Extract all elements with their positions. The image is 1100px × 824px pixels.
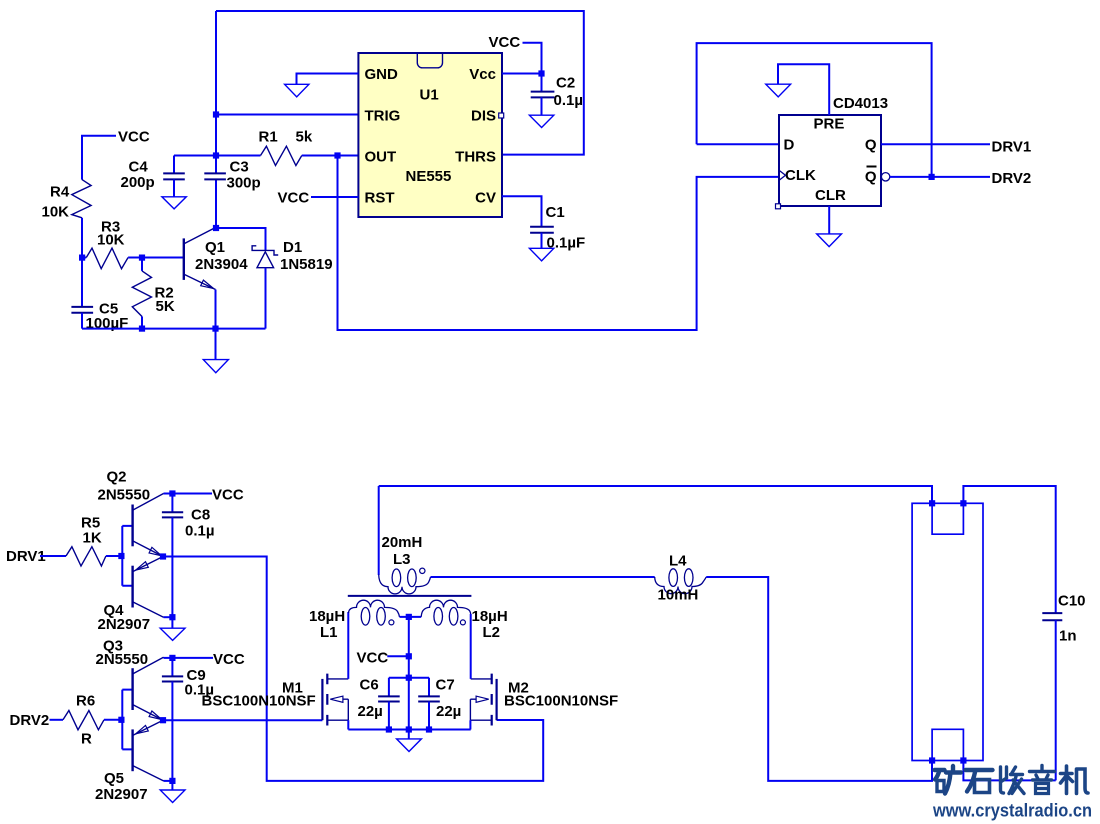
IC U1 NE555 body	[358, 53, 502, 217]
transistor M1 BSC100N10NSF nmos	[322, 674, 348, 726]
svg-text:L2: L2	[483, 624, 501, 641]
wire buffer2 output to M1 gate	[163, 719, 322, 721]
svg-text:Q: Q	[865, 137, 877, 154]
transistor M2 BSC100N10NSF nmos	[470, 674, 496, 726]
lamp filament bottom	[932, 729, 963, 760]
wire DRV1 to R5	[40, 555, 66, 557]
power label VCC (Q2)	[172, 487, 243, 504]
ground (C4)	[162, 197, 186, 209]
svg-text:C6: C6	[360, 677, 379, 694]
capacitor C6	[378, 678, 400, 730]
node Qbar/loop	[929, 174, 935, 180]
wire GND pin	[297, 74, 359, 85]
label R3 10K	[97, 219, 125, 249]
capacitor C7	[418, 678, 440, 730]
label C7 22µ	[436, 677, 462, 721]
node junction R4/R3/C5	[79, 255, 85, 261]
transformer core	[348, 595, 472, 597]
svg-text:VCC: VCC	[212, 487, 244, 504]
svg-text:OUT: OUT	[365, 149, 397, 166]
svg-text:VCC: VCC	[213, 651, 245, 668]
label L4 10mH	[658, 553, 699, 604]
capacitor C1	[530, 227, 554, 249]
wire base bracket Q3/Q5	[122, 690, 132, 750]
wire top feedback TRIG/THRS	[216, 11, 584, 155]
svg-text:10K: 10K	[42, 204, 70, 221]
svg-text:20mH: 20mH	[382, 534, 423, 551]
svg-text:C8: C8	[191, 507, 210, 524]
label M1 BSC100N10NSF	[202, 680, 316, 710]
svg-text:BSC100N10NSF: BSC100N10NSF	[202, 693, 316, 710]
pin CLK edge triangle	[779, 170, 786, 180]
svg-text:RST: RST	[365, 190, 395, 207]
capacitor C9	[162, 658, 183, 781]
wire cap top rail	[389, 677, 429, 679]
wire L1 to centre tap	[400, 616, 422, 618]
svg-text:DRV1: DRV1	[6, 548, 46, 565]
node R2 bottom	[139, 326, 145, 332]
node VCC tap	[406, 653, 412, 659]
svg-text:www.crystalradio.cn: www.crystalradio.cn	[932, 801, 1092, 821]
node Q1 collector	[213, 225, 219, 231]
node centre rail	[406, 726, 412, 732]
node lamp pin3	[929, 757, 935, 763]
svg-text:CLK: CLK	[785, 167, 816, 184]
svg-text:C7: C7	[436, 677, 455, 694]
svg-text:Vcc: Vcc	[469, 66, 496, 83]
label C4 200p	[121, 159, 155, 192]
wire L3 left lead	[378, 486, 380, 575]
svg-text:18µH: 18µH	[309, 608, 345, 625]
label C10 1n	[1058, 593, 1086, 645]
wire DRV2 to R6	[50, 719, 64, 721]
svg-text:Q5: Q5	[104, 770, 124, 787]
label Q3 2N5550	[96, 638, 149, 669]
svg-text:R: R	[81, 731, 92, 748]
wire M2 drain to L2	[470, 614, 472, 679]
wire PRE to ground	[778, 64, 829, 115]
label C8 0.1µ	[185, 507, 215, 540]
label R2 5K	[155, 285, 175, 316]
transistor Q5 2N2907	[133, 720, 173, 781]
node base junction R3/R2	[139, 255, 145, 261]
svg-text:D1: D1	[283, 239, 302, 256]
net label DRV2	[992, 170, 1032, 187]
svg-text:D: D	[784, 137, 795, 154]
wire CV	[502, 196, 542, 226]
svg-text:1K: 1K	[83, 530, 102, 547]
wire Q to DRV1	[881, 143, 990, 145]
wire L3 to L4	[431, 576, 655, 578]
IC U2 CD4013 body	[779, 115, 881, 206]
node transformer centre tap	[406, 614, 412, 620]
capacitor C8	[162, 494, 183, 618]
wire TRIG	[216, 114, 358, 116]
pin Qbar bubble	[881, 173, 889, 181]
svg-text:5k: 5k	[296, 129, 313, 146]
svg-text:2N5550: 2N5550	[96, 651, 149, 668]
label Q2 2N5550	[98, 469, 151, 504]
node cap rail top	[406, 675, 412, 681]
inductor L1 18µH	[349, 600, 400, 625]
node Q5 collector gnd	[169, 778, 175, 784]
svg-text:22µ: 22µ	[358, 703, 383, 720]
label L2 18µH	[472, 608, 508, 641]
lamp filament top	[932, 503, 963, 534]
node OUT	[334, 152, 340, 158]
label Q5 2N2907	[95, 770, 148, 803]
svg-text:200p: 200p	[121, 174, 155, 191]
ground (PRE)	[766, 84, 791, 97]
node OUT row / C3 top	[213, 152, 219, 158]
ground (Q4/C8)	[160, 617, 185, 640]
svg-text:1N5819: 1N5819	[280, 256, 333, 273]
svg-text:Q1: Q1	[205, 239, 225, 256]
node Vcc/C2	[538, 70, 544, 76]
inductor L4 10mH	[655, 569, 707, 594]
node lamp pin1	[929, 500, 935, 506]
node lamp pin4	[960, 757, 966, 763]
power label VCC (RST)	[278, 190, 310, 207]
wire Qbar to DRV2	[890, 176, 990, 178]
resistor R1	[261, 146, 359, 165]
svg-text:0.1µ: 0.1µ	[554, 92, 584, 109]
ground (Q5/C9)	[160, 781, 185, 803]
svg-text:CV: CV	[475, 190, 496, 207]
label C6 22µ	[358, 677, 383, 721]
label C1 0.1µF	[546, 204, 586, 252]
wire lamp pin2 to C10	[963, 486, 1055, 613]
U2 pin label Qbar	[865, 167, 877, 186]
wire L4 to lamp bottom	[706, 577, 932, 781]
wire source rail	[348, 729, 470, 731]
wire R4 to node	[81, 218, 83, 258]
resistor R3	[82, 248, 139, 269]
node TRIG	[213, 111, 219, 117]
label D1 1N5819	[280, 239, 333, 273]
ground (CLR)	[817, 234, 842, 247]
svg-text:300p: 300p	[227, 175, 261, 192]
wire Vcc pin to VCC label	[502, 43, 542, 74]
svg-text:VCC: VCC	[357, 650, 389, 667]
svg-text:C10: C10	[1058, 593, 1086, 610]
svg-text:BSC100N10NSF: BSC100N10NSF	[504, 693, 618, 710]
wire OUT row left	[216, 155, 261, 157]
svg-text:2N2907: 2N2907	[95, 786, 148, 803]
svg-text:DRV2: DRV2	[992, 170, 1032, 187]
node Q2/Q4 emitter output	[160, 553, 166, 559]
transistor Q2 2N5550	[133, 494, 173, 557]
svg-text:R6: R6	[76, 693, 95, 710]
label C2 0.1µ	[554, 75, 584, 110]
node Q3/Q5 emitter output	[160, 717, 166, 723]
svg-text:0.1µ: 0.1µ	[185, 523, 215, 540]
power label VCC (centre tap)	[357, 650, 409, 667]
transistor Q3 2N5550	[133, 657, 173, 720]
svg-text:TRIG: TRIG	[365, 108, 401, 125]
label U1	[420, 87, 439, 104]
node Q3 collector VCC	[169, 655, 175, 661]
ground (below Q1)	[203, 329, 228, 373]
wire OUT to CLK (long)	[338, 156, 780, 331]
node DRV1 base	[118, 553, 124, 559]
wire bottom rail (C5/R2/Q1/D1)	[82, 328, 266, 330]
resistor R5	[66, 547, 122, 566]
svg-text:DRV2: DRV2	[10, 712, 50, 729]
label R1 5k	[259, 129, 313, 146]
watermark logo kuangshi shouyinji	[935, 766, 1089, 794]
inductor L3 20mH	[379, 568, 431, 594]
wire lamp top feed	[379, 486, 932, 503]
svg-text:GND: GND	[365, 66, 399, 83]
node Q1 emitter bottom	[212, 326, 218, 332]
ground (U1 GND)	[285, 84, 309, 97]
capacitor C3	[204, 173, 226, 179]
wire D input	[697, 143, 779, 145]
wire lamp pin4 to C10 bottom	[963, 761, 1055, 781]
wire M1 source to rail	[347, 720, 349, 729]
svg-text:Q2: Q2	[107, 469, 127, 486]
ground (converter rail)	[397, 730, 422, 752]
resistor R6	[63, 711, 122, 730]
label CD4013	[833, 95, 888, 112]
svg-text:2N3904: 2N3904	[195, 256, 248, 273]
svg-text:CD4013: CD4013	[833, 95, 888, 112]
svg-text:DIS: DIS	[471, 108, 496, 125]
svg-text:R4: R4	[50, 183, 70, 200]
wire M1 drain to L1	[347, 612, 349, 679]
svg-text:10mH: 10mH	[658, 587, 699, 604]
resistor R2	[132, 258, 151, 329]
label NE555	[406, 168, 452, 185]
svg-text:L4: L4	[669, 553, 687, 570]
wire base to Q1	[142, 257, 183, 259]
node C6 rail	[386, 726, 392, 732]
svg-text:10K: 10K	[97, 232, 125, 249]
power label VCC (top left)	[118, 129, 150, 146]
svg-text:NE555: NE555	[406, 168, 452, 185]
watermark url www.crystalradio.cn	[932, 801, 1092, 821]
wire collector to D1	[216, 228, 266, 250]
svg-text:VCC: VCC	[489, 34, 521, 51]
svg-text:THRS: THRS	[455, 149, 496, 166]
label C9 0.1µ	[185, 667, 215, 699]
svg-text:DRV1: DRV1	[992, 139, 1032, 156]
label C3 300p	[227, 159, 261, 192]
wire CD4013 D loop	[697, 43, 932, 177]
power label VCC (Q3)	[172, 651, 244, 668]
wire base bracket Q2/Q4	[122, 526, 132, 586]
label L3 20mH	[382, 534, 423, 568]
inductor L2 18µH	[421, 600, 471, 625]
svg-text:Q: Q	[865, 169, 877, 186]
U1 pin labels right (Vcc DIS THRS CV)	[455, 66, 496, 207]
svg-text:2N5550: 2N5550	[98, 487, 151, 504]
node Q2 collector VCC	[169, 490, 175, 496]
wire RST	[311, 196, 358, 198]
svg-text:0.1µF: 0.1µF	[547, 235, 586, 252]
svg-text:U1: U1	[420, 87, 439, 104]
label Q4 2N2907	[98, 602, 151, 633]
wire vertical trig column	[215, 11, 217, 228]
label C5 100µF	[86, 301, 129, 333]
node C7 rail	[426, 726, 432, 732]
pin open square (U2 corner)	[776, 204, 781, 209]
power label VCC (U1 Vcc)	[489, 34, 521, 51]
svg-text:C3: C3	[230, 159, 249, 176]
wire buffer1 output to M2 gate	[163, 557, 543, 781]
svg-text:C4: C4	[129, 159, 149, 176]
svg-text:C2: C2	[556, 75, 575, 92]
svg-text:VCC: VCC	[278, 190, 310, 207]
transistor Q1 2N3904	[184, 228, 216, 329]
transistor Q4 2N2907	[133, 557, 173, 618]
net label DRV1 (input)	[6, 548, 46, 565]
node Q4 collector gnd	[169, 614, 175, 620]
svg-text:PRE: PRE	[814, 116, 845, 133]
node DRV2 base	[118, 717, 124, 723]
svg-text:L3: L3	[393, 551, 411, 568]
net label DRV1	[992, 139, 1032, 156]
lamp tube body	[912, 503, 983, 760]
label R6 R	[76, 693, 95, 748]
capacitor C2	[531, 74, 555, 116]
U1 pin labels left (GND TRIG OUT RST)	[365, 66, 401, 207]
label Q1 2N3904	[195, 239, 248, 273]
capacitor C4	[163, 156, 216, 197]
svg-text:2N2907: 2N2907	[98, 616, 151, 633]
capacitor C10	[1042, 613, 1062, 780]
ground (C1)	[529, 248, 553, 261]
resistor R4	[72, 180, 91, 218]
svg-text:18µH: 18µH	[472, 608, 508, 625]
svg-text:5K: 5K	[156, 298, 175, 315]
wire M2 source to rail	[469, 720, 471, 729]
diode D1 1N5819 schottky	[252, 246, 278, 329]
svg-text:R1: R1	[259, 129, 278, 146]
svg-text:C1: C1	[546, 204, 565, 221]
svg-text:22µ: 22µ	[436, 703, 461, 720]
pin DIS open square	[499, 113, 504, 118]
svg-text:CLR: CLR	[815, 187, 846, 204]
net label DRV2 (input)	[10, 712, 50, 729]
svg-text:VCC: VCC	[118, 129, 150, 146]
label L1 18µH	[309, 608, 345, 641]
label R5 1K	[81, 515, 102, 547]
wire centre tap down	[408, 617, 410, 730]
svg-text:L1: L1	[320, 624, 338, 641]
U2 pin labels (PRE D CLK CLR Q)	[784, 116, 877, 205]
label M2 BSC100N10NSF	[504, 680, 618, 710]
ground (C2)	[529, 115, 553, 127]
label R4 10K	[42, 183, 70, 220]
node lamp pin2	[960, 500, 966, 506]
capacitor C5	[71, 258, 93, 329]
wire VCC to R4	[82, 136, 116, 180]
wire CLR to ground	[828, 206, 830, 234]
svg-text:1n: 1n	[1059, 628, 1077, 645]
